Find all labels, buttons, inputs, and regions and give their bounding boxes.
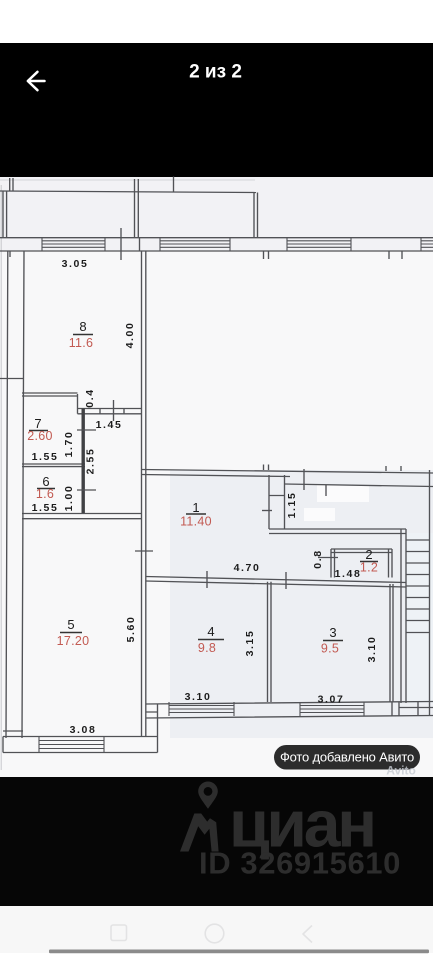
south wall step connector xyxy=(146,704,158,737)
room 3 window xyxy=(300,702,364,716)
svg-text:0.8: 0.8 xyxy=(312,549,324,568)
room 5 south wall xyxy=(3,737,158,753)
svg-text:Avito: Avito xyxy=(386,764,416,778)
door ticks rooms 4 and 3 xyxy=(207,571,286,589)
big room south wall lower line right part xyxy=(285,484,433,487)
svg-text:ID 326915610: ID 326915610 xyxy=(199,846,401,881)
svg-text:9.8: 9.8 xyxy=(198,641,216,655)
top inner wall line xyxy=(0,250,433,252)
balcony A left side wall xyxy=(3,191,7,238)
svg-text:11.40: 11.40 xyxy=(180,515,212,529)
balcony left wall stub xyxy=(10,178,13,191)
wall end ticks below band xyxy=(10,251,402,259)
top outer wall line xyxy=(0,237,433,239)
svg-text:3.08: 3.08 xyxy=(70,724,97,736)
svg-text:3.15: 3.15 xyxy=(244,630,256,657)
white patch 1 xyxy=(317,485,369,502)
room 4 window xyxy=(169,702,234,716)
svg-text:5.60: 5.60 xyxy=(125,616,137,643)
svg-text:4.00: 4.00 xyxy=(124,322,136,349)
south wall dividers right xyxy=(392,702,433,716)
room5 door tick on central wall xyxy=(135,550,153,552)
window W3 xyxy=(287,238,351,251)
wall divider tick long at x121 xyxy=(120,228,122,260)
status bar xyxy=(0,0,433,43)
svg-text:3.10: 3.10 xyxy=(366,636,378,663)
left wall tick bottom xyxy=(3,730,23,732)
svg-text:4: 4 xyxy=(207,624,214,639)
balcony stub x173 xyxy=(173,177,175,192)
tint stairwell xyxy=(406,533,433,703)
vestibule north wall xyxy=(269,529,406,534)
svg-text:1.55: 1.55 xyxy=(32,502,59,514)
white patch 2 xyxy=(304,508,335,521)
svg-text:1.45: 1.45 xyxy=(96,419,123,431)
black watermark band xyxy=(0,777,433,906)
nav bar background xyxy=(0,906,433,960)
vestibule and stairwell west rail wall xyxy=(401,529,406,703)
svg-text:1.70: 1.70 xyxy=(63,431,75,458)
left outer wall xyxy=(6,251,24,738)
balcony A right side wall xyxy=(135,179,139,238)
svg-text:1.6: 1.6 xyxy=(36,487,54,501)
balcony front edge line xyxy=(0,191,256,193)
svg-text:3: 3 xyxy=(329,625,336,640)
room 2 box west xyxy=(331,549,335,578)
photo left edge faint line xyxy=(0,185,2,770)
rooms 4-3 south outer wall xyxy=(146,702,433,719)
cian logo person body xyxy=(180,814,219,852)
photo background xyxy=(0,177,433,778)
svg-text:1.15: 1.15 xyxy=(286,492,298,519)
svg-text:2.55: 2.55 xyxy=(85,448,97,475)
tint top strip xyxy=(0,177,433,251)
svg-text:17.20: 17.20 xyxy=(57,634,90,648)
svg-text:5: 5 xyxy=(67,617,74,632)
rooms 4/3 divider wall xyxy=(268,582,272,702)
room 5 window xyxy=(39,737,104,753)
right outer wall xyxy=(429,470,431,716)
big room south wall upper line xyxy=(142,470,433,474)
dimension ticks on thick wall xyxy=(77,430,96,490)
svg-text:2.60: 2.60 xyxy=(27,429,53,443)
svg-text:1.2: 1.2 xyxy=(360,561,378,575)
photo added pill xyxy=(274,745,420,770)
tint lower right region xyxy=(170,470,433,738)
svg-text:Фото добавлено Авито: Фото добавлено Авито xyxy=(280,750,414,765)
svg-text:2 из 2: 2 из 2 xyxy=(189,62,242,83)
big room south wall lower line left part xyxy=(142,475,291,477)
room 3 east wall xyxy=(390,584,393,702)
cian logo pin head xyxy=(198,782,218,809)
svg-text:9.5: 9.5 xyxy=(321,642,339,656)
svg-text:1.00: 1.00 xyxy=(63,485,75,512)
left wall tick at room8 bottom xyxy=(0,378,24,380)
window W4 partial xyxy=(421,238,433,251)
corridor south / rooms 4-3 north wall xyxy=(146,577,406,588)
balcony faint upper line xyxy=(0,179,255,181)
nav recent square icon xyxy=(111,925,127,941)
room 7 north wall xyxy=(22,393,78,396)
central wall room8/big room/rooms5-4 xyxy=(142,251,146,737)
svg-text:8: 8 xyxy=(79,319,86,334)
room 2 dimension tick xyxy=(318,557,338,559)
room 8 south wall with door band xyxy=(78,394,142,414)
gesture gray bar xyxy=(49,950,429,954)
svg-text:3.07: 3.07 xyxy=(318,694,345,706)
room 5 north wall xyxy=(22,514,142,519)
svg-text:0.4: 0.4 xyxy=(84,388,96,407)
svg-text:1.55: 1.55 xyxy=(32,451,59,463)
svg-text:4.70: 4.70 xyxy=(234,562,261,574)
nav white bottom xyxy=(0,953,433,960)
nav home circle icon xyxy=(205,924,224,943)
window W2 xyxy=(160,238,230,251)
stair treads xyxy=(406,540,430,633)
door tick room 8 xyxy=(113,400,115,421)
nav back chevron icon xyxy=(303,926,312,943)
svg-text:3.05: 3.05 xyxy=(62,258,89,270)
svg-text:1: 1 xyxy=(192,500,199,515)
balcony B right side wall xyxy=(254,193,258,239)
thick wall right of rooms 7-6 xyxy=(82,409,85,515)
shaft dimension tick xyxy=(262,510,272,512)
door ticks big room south wall xyxy=(264,465,402,497)
svg-text:11.6: 11.6 xyxy=(69,336,94,350)
svg-text:3.10: 3.10 xyxy=(185,691,212,703)
wall divider x139.5 in band xyxy=(139,238,141,251)
room 2 box north xyxy=(331,549,392,553)
room 7/6 divider wall xyxy=(22,464,85,467)
window W1 room8 xyxy=(42,238,105,251)
svg-text:1.48: 1.48 xyxy=(335,568,362,580)
room 2 box east xyxy=(389,549,393,578)
back arrow xyxy=(28,72,45,90)
shaft left of vestibule xyxy=(269,475,285,529)
header bar xyxy=(0,43,433,178)
